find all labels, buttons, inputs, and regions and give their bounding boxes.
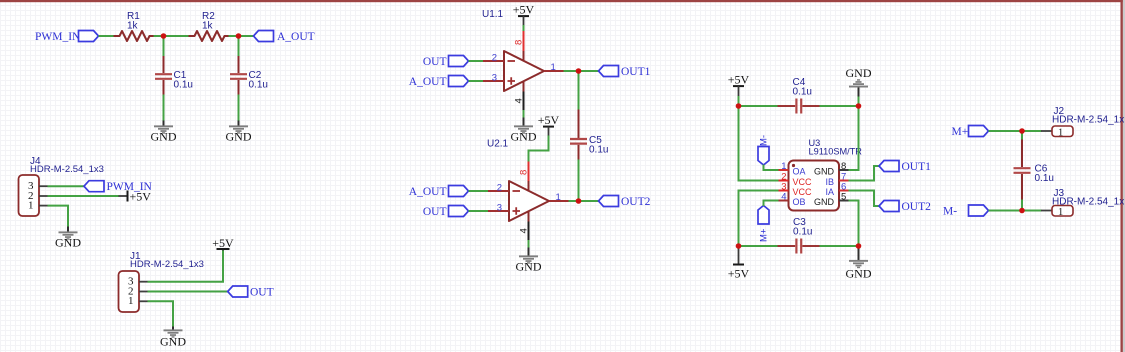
pin 3 stub: [779, 190, 789, 192]
pin 6 stub: [839, 190, 849, 192]
wire: [469, 80, 484, 82]
wire: [569, 200, 599, 202]
svg-text:1: 1: [551, 62, 556, 73]
wire: [238, 95, 240, 122]
svg-text:OUT: OUT: [423, 56, 447, 68]
svg-text:1k: 1k: [202, 21, 214, 32]
svg-text:0.1u: 0.1u: [1035, 173, 1054, 184]
wire: [820, 245, 859, 247]
power +5V: [119, 190, 152, 204]
power +5V: [212, 236, 234, 250]
op-amp U2: [487, 139, 569, 241]
ground: [516, 248, 542, 274]
wire: [849, 166, 880, 181]
svg-text:0.1u: 0.1u: [793, 227, 812, 238]
net label OUT1: [599, 66, 651, 78]
capacitor C3: [778, 217, 821, 254]
net label OUT1: [879, 161, 931, 173]
svg-text:OUT: OUT: [423, 206, 447, 218]
svg-text:0.1u: 0.1u: [249, 80, 268, 91]
connector J1: [119, 251, 204, 312]
wire: [528, 240, 530, 248]
wire: [739, 245, 779, 247]
svg-text:+5V: +5V: [728, 73, 750, 87]
wire: [989, 130, 1042, 132]
svg-text:0.1u: 0.1u: [793, 87, 812, 98]
junction node: [736, 103, 742, 109]
pin 5 stub: [839, 200, 849, 202]
net label OUT: [423, 56, 469, 68]
svg-text:GND: GND: [846, 66, 872, 80]
wire: [764, 165, 779, 171]
wire: [48, 195, 120, 197]
net label OUT: [228, 286, 274, 298]
wire: [48, 206, 69, 227]
wire: [1021, 200, 1023, 211]
svg-text:GND: GND: [814, 166, 835, 176]
wire: [849, 106, 859, 170]
power +5V: [513, 3, 535, 26]
svg-text:VCC: VCC: [793, 187, 813, 197]
junction node: [576, 68, 582, 74]
junction node: [736, 243, 742, 249]
svg-text:4: 4: [519, 228, 530, 233]
svg-text:GND: GND: [151, 130, 177, 144]
svg-text:A_OUT: A_OUT: [277, 31, 315, 43]
net label A_OUT: [254, 31, 315, 43]
capacitor C1: [155, 56, 193, 95]
svg-text:M-: M-: [943, 205, 957, 217]
ground: [151, 121, 177, 144]
net label PWM_IN: [84, 181, 153, 193]
svg-text:IA: IA: [825, 187, 834, 197]
net label M-: [943, 205, 989, 217]
svg-text:GND: GND: [55, 236, 81, 250]
junction node: [1019, 208, 1025, 214]
wire: [849, 191, 880, 207]
net label OUT: [423, 206, 469, 218]
wire: [578, 71, 580, 110]
wire: [148, 250, 224, 282]
svg-text:2: 2: [497, 182, 502, 193]
pin number 1: [28, 200, 48, 212]
op-amp U1: [482, 9, 564, 111]
svg-text:PWM_IN: PWM_IN: [35, 31, 81, 43]
wire: [148, 301, 174, 327]
power +5V: [728, 246, 750, 280]
wire: [154, 35, 164, 37]
svg-text:1: 1: [556, 192, 561, 203]
svg-text:M-: M-: [759, 135, 770, 146]
wire: [523, 110, 525, 118]
pin 2 stub: [779, 180, 789, 182]
pin number 3: [128, 276, 148, 288]
svg-text:1: 1: [1058, 207, 1063, 218]
svg-text:OA: OA: [793, 166, 806, 176]
wire: [820, 105, 859, 107]
ground: [226, 121, 252, 144]
svg-text:OUT2: OUT2: [902, 201, 932, 213]
wire: [989, 210, 1042, 212]
svg-text:OB: OB: [793, 197, 806, 207]
svg-text:A_OUT: A_OUT: [409, 186, 447, 198]
svg-text:+5V: +5V: [130, 190, 152, 204]
wire: [148, 291, 228, 293]
wire: [469, 210, 489, 212]
wire: [48, 185, 85, 187]
svg-text:4: 4: [781, 191, 786, 202]
wire: [1021, 131, 1023, 140]
svg-text:8: 8: [841, 161, 846, 172]
svg-text:HDR-M-2.54_1x1: HDR-M-2.54_1x1: [1052, 197, 1125, 208]
svg-text:A_OUT: A_OUT: [409, 76, 447, 88]
IC U3 L9110SM/TR: [789, 138, 863, 211]
wire: [469, 190, 489, 192]
svg-text:U1.1: U1.1: [482, 9, 504, 20]
wire: [564, 70, 599, 72]
svg-text:1: 1: [28, 200, 34, 212]
sheet border top: [0, 0, 1123, 2]
svg-text:OUT1: OUT1: [621, 66, 651, 78]
svg-text:+5V: +5V: [212, 236, 234, 250]
power +5V: [728, 73, 750, 97]
capacitor C2: [230, 56, 268, 95]
svg-text:HDR-M-2.54_1x3: HDR-M-2.54_1x3: [130, 259, 204, 270]
svg-text:0.1u: 0.1u: [589, 145, 608, 156]
svg-text:3: 3: [497, 202, 502, 213]
svg-text:U2.1: U2.1: [487, 139, 509, 150]
connector J3: [1041, 188, 1125, 218]
net label M-: [758, 135, 770, 165]
net label A_OUT: [409, 76, 469, 88]
svg-text:VCC: VCC: [793, 177, 813, 187]
junction node: [1019, 128, 1025, 134]
svg-text:IB: IB: [825, 177, 834, 187]
svg-text:M+: M+: [952, 126, 969, 138]
ground: [846, 66, 872, 97]
net label OUT2: [599, 196, 651, 208]
ground: [55, 227, 81, 250]
wire: [164, 35, 189, 37]
svg-text:0.1u: 0.1u: [174, 80, 193, 91]
net label A_OUT: [409, 186, 469, 198]
svg-text:+5V: +5V: [728, 266, 750, 280]
svg-text:HDR-M-2.54_1x3: HDR-M-2.54_1x3: [30, 164, 104, 175]
connector J2: [1041, 106, 1125, 138]
svg-text:2: 2: [492, 52, 497, 63]
pin number 1: [128, 295, 148, 307]
svg-text:5: 5: [841, 191, 846, 202]
wire: [739, 105, 779, 107]
wire: [738, 96, 740, 106]
svg-text:3: 3: [492, 72, 497, 83]
svg-text:1k: 1k: [127, 21, 139, 32]
net label M+: [758, 206, 770, 243]
wire: [163, 36, 165, 57]
wire: [739, 106, 779, 181]
pin 7 stub: [839, 180, 849, 182]
junction node: [856, 243, 862, 249]
capacitor C6: [1014, 140, 1054, 201]
wire: [163, 95, 165, 122]
wire: [764, 201, 779, 207]
svg-text:M+: M+: [759, 228, 770, 242]
ground: [511, 118, 537, 144]
resistor R1: [114, 11, 154, 41]
svg-text:4: 4: [514, 98, 525, 103]
connector J4: [19, 156, 104, 216]
svg-text:OUT: OUT: [250, 286, 274, 298]
net label OUT2: [879, 201, 931, 213]
wire: [858, 97, 860, 107]
junction node: [161, 33, 167, 39]
svg-text:8: 8: [514, 40, 525, 45]
svg-text:GND: GND: [226, 130, 252, 144]
resistor R2: [189, 11, 229, 41]
power +5V: [538, 113, 560, 136]
svg-text:8: 8: [519, 170, 530, 175]
capacitor C5: [570, 110, 608, 161]
junction node: [576, 198, 582, 204]
net label M+: [952, 126, 989, 138]
junction node: [856, 103, 862, 109]
svg-text:OUT1: OUT1: [902, 161, 932, 173]
wire: [229, 35, 254, 37]
svg-text:HDR-M-2.54_1x1: HDR-M-2.54_1x1: [1052, 115, 1125, 126]
pin 8 stub: [839, 169, 849, 171]
svg-text:+5V: +5V: [538, 113, 560, 127]
wire: [739, 191, 779, 247]
pin 4 stub: [779, 200, 789, 202]
pin 1 stub: [779, 169, 789, 171]
svg-text:GND: GND: [160, 335, 186, 349]
pin number 2: [28, 190, 48, 202]
ground: [846, 246, 872, 280]
wire: [849, 201, 859, 247]
svg-text:1: 1: [128, 295, 134, 307]
wire: [99, 35, 115, 37]
wire: [523, 25, 525, 31]
svg-text:+5V: +5V: [513, 3, 535, 17]
junction node: [236, 33, 242, 39]
wire: [529, 136, 549, 162]
wire: [578, 160, 580, 202]
svg-text:OUT2: OUT2: [621, 196, 651, 208]
sheet border right: [1121, 0, 1125, 352]
svg-text:1: 1: [1058, 127, 1063, 138]
pin number 3: [28, 180, 48, 192]
svg-text:GND: GND: [814, 197, 835, 207]
svg-text:GND: GND: [846, 266, 872, 280]
wire: [469, 60, 484, 62]
svg-text:L9110SM/TR: L9110SM/TR: [809, 147, 863, 157]
capacitor C4: [778, 77, 821, 114]
svg-text:1: 1: [781, 161, 786, 172]
ground: [160, 327, 186, 349]
net label PWM_IN: [35, 31, 99, 43]
wire: [238, 36, 240, 57]
svg-text:GND: GND: [511, 130, 537, 144]
pin number 2: [128, 285, 148, 297]
svg-text:GND: GND: [516, 260, 542, 274]
